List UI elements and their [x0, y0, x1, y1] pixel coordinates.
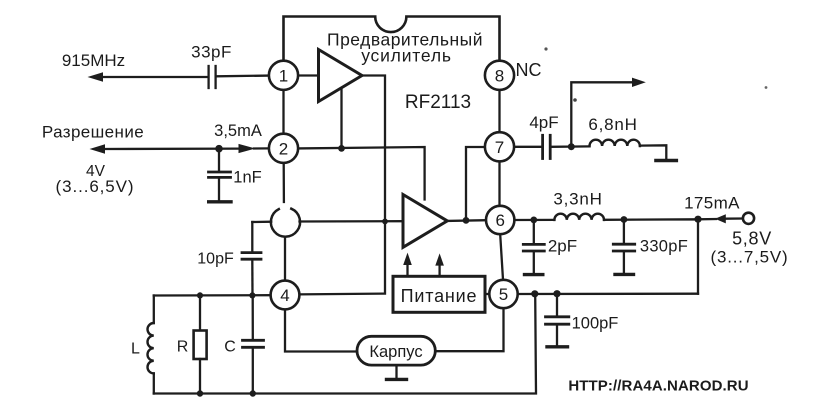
svg-text:175mA: 175mA: [684, 194, 740, 213]
svg-text:3,3nH: 3,3nH: [553, 190, 602, 209]
svg-text:330pF: 330pF: [640, 238, 688, 256]
svg-text:NC: NC: [516, 60, 542, 80]
svg-text:4pF: 4pF: [529, 113, 558, 132]
svg-text:6,8nH: 6,8nH: [588, 115, 637, 134]
svg-text:C: C: [224, 339, 236, 356]
svg-text:1nF: 1nF: [233, 169, 261, 187]
svg-text:(3...7,5V): (3...7,5V): [711, 248, 789, 267]
svg-text:Карпус: Карпус: [369, 343, 422, 361]
svg-text:5,8V: 5,8V: [732, 229, 772, 249]
svg-text:HTTP://RA4A.NAROD.RU: HTTP://RA4A.NAROD.RU: [568, 378, 748, 395]
svg-text:6: 6: [495, 211, 504, 230]
svg-text:2pF: 2pF: [548, 237, 577, 256]
svg-text:8: 8: [495, 66, 504, 85]
svg-text:1: 1: [279, 66, 288, 85]
svg-text:100pF: 100pF: [572, 315, 619, 333]
svg-text:10pF: 10pF: [197, 251, 234, 268]
svg-text:5: 5: [499, 285, 508, 304]
svg-text:Питание: Питание: [401, 286, 478, 306]
svg-text:усилитель: усилитель: [361, 46, 452, 66]
svg-text:33pF: 33pF: [191, 43, 232, 62]
svg-text:RF2113: RF2113: [405, 92, 471, 113]
svg-text:(3...6,5V): (3...6,5V): [56, 177, 135, 196]
svg-text:2: 2: [279, 139, 288, 158]
svg-text:R: R: [177, 339, 189, 356]
svg-text:Разрешение: Разрешение: [42, 123, 144, 142]
svg-text:7: 7: [495, 138, 504, 157]
svg-text:4: 4: [280, 286, 289, 305]
svg-text:L: L: [131, 341, 140, 358]
svg-text:915MHz: 915MHz: [62, 51, 125, 70]
svg-text:3,5mA: 3,5mA: [214, 122, 262, 140]
